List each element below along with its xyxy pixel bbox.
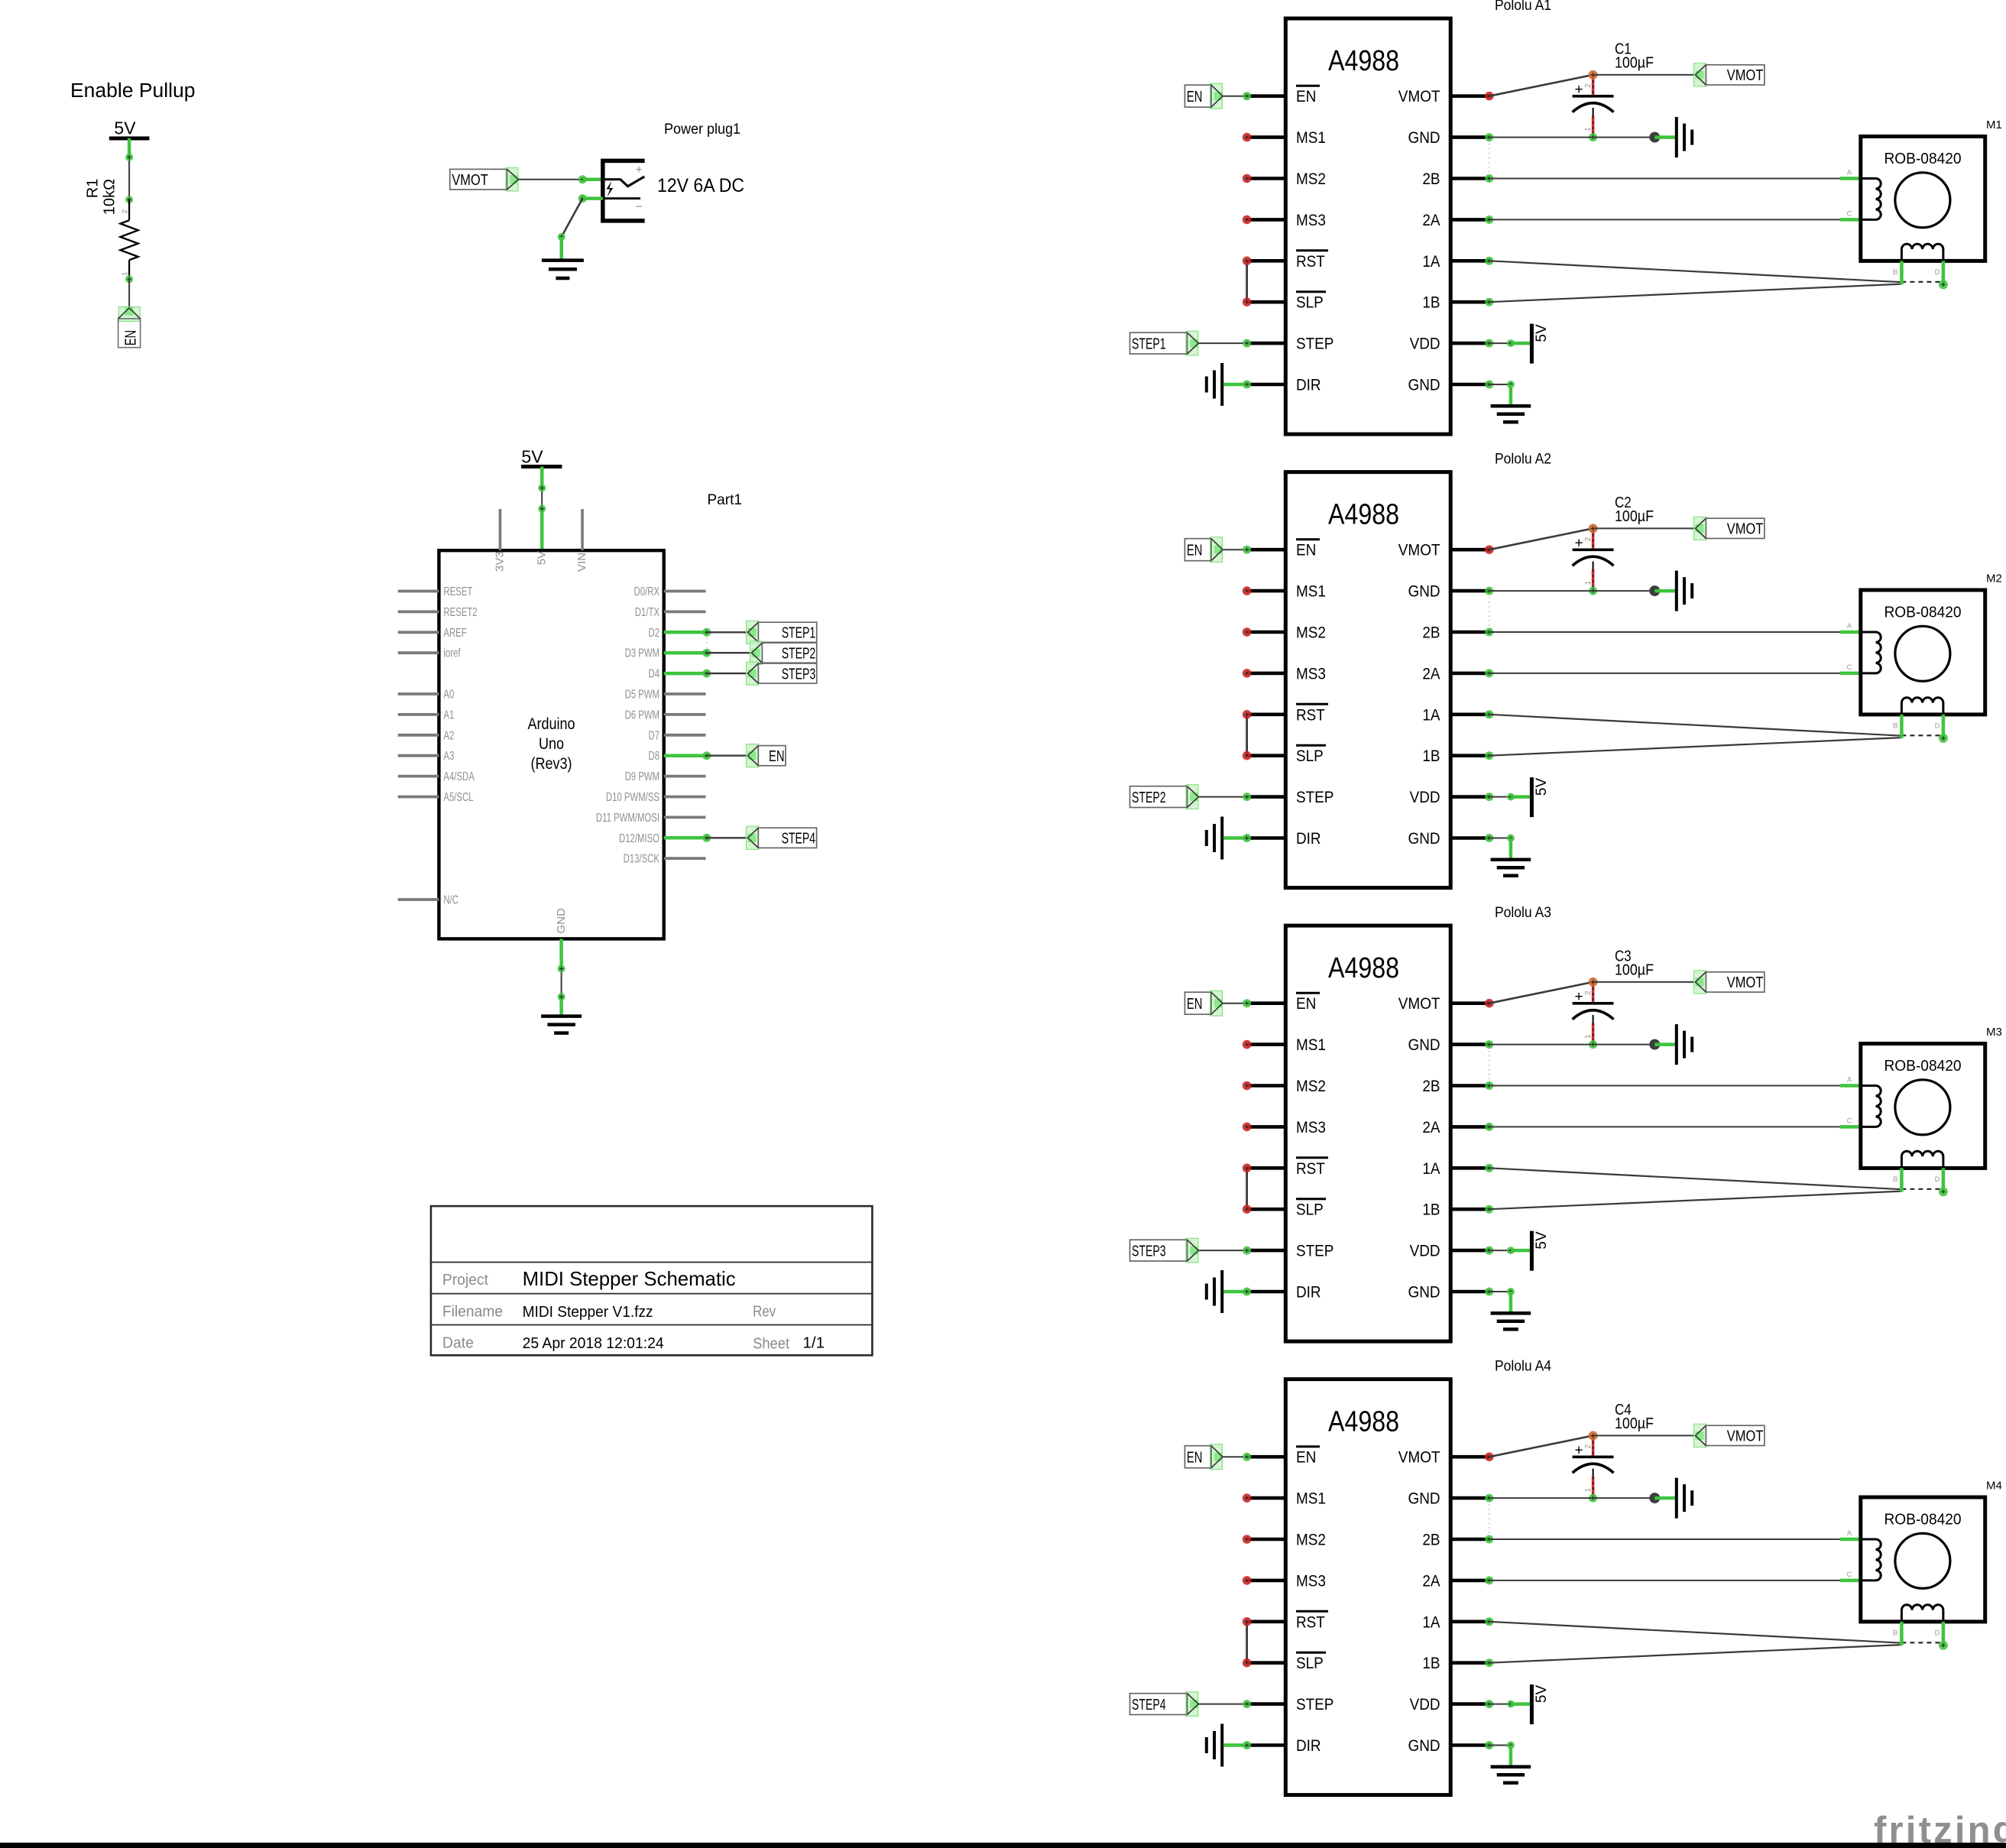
svg-text:VMOT: VMOT xyxy=(1727,521,1764,538)
svg-text:2: 2 xyxy=(1584,1444,1593,1449)
svg-text:B: B xyxy=(1893,1629,1897,1638)
svg-text:1/1: 1/1 xyxy=(803,1334,825,1352)
svg-text:D11 PWM/MOSI: D11 PWM/MOSI xyxy=(596,812,659,825)
svg-text:C: C xyxy=(1847,1571,1852,1579)
svg-text:SLP: SLP xyxy=(1296,293,1324,312)
motor M4 pin D stub xyxy=(1942,1622,1946,1645)
svg-text:Pololu A3: Pololu A3 xyxy=(1495,905,1551,921)
wire U3 1B to motor M3 pin B xyxy=(1485,1205,1493,1214)
net label STEP3 (arduino) xyxy=(747,662,759,685)
svg-text:2B: 2B xyxy=(1422,170,1440,188)
ratsnest U2 GND-2B (faint) xyxy=(1489,597,1490,626)
svg-text:RESET2: RESET2 xyxy=(443,606,477,619)
svg-text:EN: EN xyxy=(1296,541,1316,559)
svg-text:M1: M1 xyxy=(1986,118,2002,131)
svg-text:GND: GND xyxy=(1408,1490,1440,1508)
svg-text:Part1: Part1 xyxy=(708,492,742,508)
U1 left pin stubs xyxy=(1249,96,1285,384)
motor M1 pin D stub xyxy=(1942,261,1946,284)
ground symbol at U2 DIR xyxy=(1207,817,1222,860)
svg-text:VIN: VIN xyxy=(575,553,588,572)
svg-text:Date: Date xyxy=(442,1335,474,1352)
wire U2 2B to motor M2 pin A xyxy=(1485,628,1493,637)
svg-text:5V: 5V xyxy=(521,447,543,467)
svg-text:D: D xyxy=(1935,1629,1940,1638)
svg-text:+: + xyxy=(1574,82,1583,98)
net label STEP1 (U1) xyxy=(1186,331,1198,355)
ground symbol at U3 GND (bottom) xyxy=(1491,1313,1531,1329)
ground symbol at U2 GND (bottom) xyxy=(1491,860,1531,876)
svg-text:−: − xyxy=(635,201,642,214)
arduino left pin names xyxy=(443,585,477,907)
svg-text:100µF: 100µF xyxy=(1615,55,1654,72)
svg-text:2B: 2B xyxy=(1422,1077,1440,1095)
wire C4 to VMOT label xyxy=(1593,1435,1696,1436)
svg-text:GND: GND xyxy=(1408,1736,1440,1755)
wire U1 2B to motor M1 pin A xyxy=(1485,174,1493,183)
ground symbol at U1 DIR xyxy=(1207,363,1222,406)
svg-text:Arduino: Arduino xyxy=(528,715,575,733)
svg-text:VMOT: VMOT xyxy=(1727,67,1764,84)
svg-text:D: D xyxy=(1935,268,1940,277)
svg-text:A0: A0 xyxy=(443,689,454,702)
wire arduino D4 to STEP3 xyxy=(664,672,707,676)
motor M1 pin B stub xyxy=(1900,261,1904,284)
svg-text:GND: GND xyxy=(1408,1036,1440,1054)
svg-text:100µF: 100µF xyxy=(1615,508,1654,525)
svg-text:STEP: STEP xyxy=(1296,1695,1334,1713)
motor M2 pin B stub xyxy=(1900,715,1904,738)
net label EN (U3) xyxy=(1210,990,1223,1016)
wire U4 1B to motor M4 pin B xyxy=(1485,1658,1493,1667)
wire junction to ground (U2) xyxy=(1654,589,1675,593)
wire EN label to U3 EN pin xyxy=(1223,1003,1247,1004)
U3 left pin names xyxy=(1296,993,1334,1301)
wire C1 to VMOT label xyxy=(1593,74,1696,76)
svg-text:2: 2 xyxy=(1584,537,1593,542)
svg-text:MS1: MS1 xyxy=(1296,1036,1326,1054)
svg-text:STEP2: STEP2 xyxy=(782,645,816,662)
net label VMOT (U1, arrow left) xyxy=(1694,63,1706,86)
svg-text:VMOT: VMOT xyxy=(1398,994,1440,1013)
net label VMOT (U4, arrow left) xyxy=(1694,1424,1706,1447)
svg-text:+: + xyxy=(1574,536,1583,552)
svg-text:D5 PWM: D5 PWM xyxy=(625,689,659,702)
svg-text:A4/SDA: A4/SDA xyxy=(443,770,475,783)
wire U4 1A to motor M4 pin B xyxy=(1485,1617,1493,1626)
wire U1 VDD to 5V xyxy=(1485,339,1493,348)
svg-text:RST: RST xyxy=(1296,705,1325,724)
wire junction to ground (U3) xyxy=(1654,1042,1675,1046)
svg-text:ROB-08420: ROB-08420 xyxy=(1884,1511,1962,1529)
svg-text:RESET: RESET xyxy=(443,585,472,598)
svg-text:EN: EN xyxy=(1187,996,1203,1013)
svg-text:GND: GND xyxy=(1408,582,1440,601)
U3 right pin names xyxy=(1398,994,1440,1301)
wire 5V to R1 pin2 xyxy=(128,138,131,157)
wire U3 VDD to 5V xyxy=(1485,1247,1493,1255)
ground symbol at U1 GND (bottom) xyxy=(1491,406,1531,422)
svg-text:1A: 1A xyxy=(1422,705,1440,724)
svg-text:DIR: DIR xyxy=(1296,1283,1321,1302)
motor M1 rotor circle xyxy=(1895,173,1950,228)
junction node (U1 GND / C1) xyxy=(1649,132,1660,143)
svg-text:Pololu A2: Pololu A2 xyxy=(1495,452,1551,468)
svg-text:C: C xyxy=(1847,1117,1852,1125)
wire U3 RST-SLP tie xyxy=(1246,1168,1248,1209)
wire U1 1B to motor M1 pin B xyxy=(1485,298,1493,306)
svg-text:MIDI Stepper Schematic: MIDI Stepper Schematic xyxy=(523,1267,736,1290)
wire STEP2 label to U2 STEP pin xyxy=(1198,796,1246,798)
ratsnest motor M4 B to D xyxy=(1901,1642,1943,1643)
svg-text:1B: 1B xyxy=(1422,1654,1440,1672)
ratsnest motor M3 B to D xyxy=(1901,1188,1943,1190)
svg-text:DIR: DIR xyxy=(1296,829,1321,848)
svg-text:1A: 1A xyxy=(1422,1159,1440,1178)
svg-text:5V: 5V xyxy=(1534,778,1550,796)
capacitor C2 100uF xyxy=(1592,528,1595,550)
svg-text:MS3: MS3 xyxy=(1296,211,1326,229)
capacitor C3 100uF xyxy=(1592,982,1595,1003)
svg-text:Uno: Uno xyxy=(539,735,564,753)
wire U4 GND pin to ground (bottom) xyxy=(1485,1741,1493,1749)
svg-text:MIDI Stepper V1.fzz: MIDI Stepper V1.fzz xyxy=(523,1303,653,1321)
motor M2 pin D stub xyxy=(1942,715,1946,738)
wire U4 VDD to 5V xyxy=(1485,1700,1493,1708)
capacitor C4 100uF xyxy=(1592,1435,1595,1457)
svg-text:1B: 1B xyxy=(1422,747,1440,765)
wire U2 1B to motor M2 pin B xyxy=(1485,751,1493,760)
title block frame xyxy=(431,1206,873,1355)
svg-text:B: B xyxy=(1893,1175,1897,1184)
svg-text:2B: 2B xyxy=(1422,1531,1440,1549)
svg-text:1: 1 xyxy=(1584,1034,1593,1039)
svg-text:GND: GND xyxy=(1408,128,1440,147)
svg-text:2A: 2A xyxy=(1422,664,1440,682)
svg-text:1: 1 xyxy=(1584,581,1593,585)
ratsnest U1 GND-2B (faint) xyxy=(1489,144,1490,173)
svg-text:Enable Pullup: Enable Pullup xyxy=(70,80,196,102)
motor M3 pin B stub xyxy=(1900,1168,1904,1191)
svg-text:1B: 1B xyxy=(1422,293,1440,312)
svg-text:D9 PWM: D9 PWM xyxy=(625,770,659,783)
junction node (U2 GND / C2) xyxy=(1649,585,1660,596)
wire EN label to U2 EN pin xyxy=(1223,549,1247,550)
svg-text:D6 PWM: D6 PWM xyxy=(625,708,659,721)
ratsnest U4 GND-2B (faint) xyxy=(1489,1504,1490,1533)
svg-text:A3: A3 xyxy=(443,750,454,763)
motor M4 body ROB-08420 xyxy=(1861,1497,1985,1622)
svg-text:RST: RST xyxy=(1296,1613,1325,1631)
wire arduino D8 to EN xyxy=(664,754,707,757)
wire U2 VDD to 5V xyxy=(1485,793,1493,801)
wire U1 2A to motor M1 pin C xyxy=(1485,216,1493,224)
svg-text:C: C xyxy=(1847,663,1852,672)
wire EN label to U1 EN pin xyxy=(1223,96,1247,97)
U3 unconnected pin dots MS1 MS2 MS3 xyxy=(1243,1040,1252,1131)
wire arduino D2 to STEP1 xyxy=(664,631,707,634)
ground symbol (power plug) xyxy=(542,261,584,278)
net label STEP1 (arduino) xyxy=(747,621,759,644)
svg-text:Pololu A1: Pololu A1 xyxy=(1495,0,1551,14)
ratsnest arduino D2-D3 (faint) xyxy=(706,637,708,647)
svg-text:1: 1 xyxy=(1584,127,1593,131)
wire U4 GND to junction xyxy=(1485,1494,1493,1503)
svg-text:B: B xyxy=(1893,268,1897,277)
net label STEP3 (U3) xyxy=(1186,1238,1198,1263)
svg-text:D12/MISO: D12/MISO xyxy=(619,832,659,845)
svg-text:100µF: 100µF xyxy=(1615,1415,1654,1432)
wire U3 2B to motor M3 pin A xyxy=(1485,1081,1493,1090)
wire U3 VMOT to C3 xyxy=(1485,999,1494,1008)
motor M2 rotor circle xyxy=(1895,626,1950,681)
net label EN (U4) xyxy=(1210,1444,1223,1470)
wire U2 VMOT to C2 xyxy=(1485,545,1494,554)
bottom window edge xyxy=(0,1843,2006,1848)
svg-text:Filename: Filename xyxy=(442,1304,503,1321)
svg-text:D13/SCK: D13/SCK xyxy=(624,853,660,866)
wire STEP4 label to U4 STEP pin xyxy=(1198,1704,1246,1705)
wire U2 1A to motor M2 pin B xyxy=(1485,710,1493,718)
svg-text:VMOT: VMOT xyxy=(1727,974,1764,991)
svg-text:DIR: DIR xyxy=(1296,1736,1321,1755)
svg-text:M2: M2 xyxy=(1986,572,2002,585)
A4988 U2 body xyxy=(1285,472,1450,888)
svg-text:EN: EN xyxy=(769,748,785,765)
svg-text:MS3: MS3 xyxy=(1296,1118,1326,1136)
power symbol 5V (U2 VDD) xyxy=(1530,777,1534,817)
svg-text:STEP3: STEP3 xyxy=(782,666,816,682)
capacitor C1 100uF xyxy=(1592,75,1595,96)
svg-text:1: 1 xyxy=(1584,1488,1593,1493)
svg-text:5V: 5V xyxy=(1534,324,1550,342)
svg-text:A1: A1 xyxy=(443,708,454,721)
svg-text:1: 1 xyxy=(122,271,130,276)
resistor R1 10k xyxy=(128,199,130,220)
svg-text:VMOT: VMOT xyxy=(1398,1448,1440,1467)
svg-text:EN: EN xyxy=(1187,89,1203,105)
svg-text:fritzing: fritzing xyxy=(1874,1810,2006,1848)
svg-text:D1/TX: D1/TX xyxy=(635,606,659,619)
svg-text:B: B xyxy=(1893,722,1897,731)
svg-text:ROB-08420: ROB-08420 xyxy=(1884,150,1962,167)
junction node (U4 GND / C4) xyxy=(1649,1493,1660,1503)
motor M4 left winding xyxy=(1861,1539,1881,1581)
svg-text:GND: GND xyxy=(1408,376,1440,394)
motor M4 pin B stub xyxy=(1900,1622,1904,1645)
wire U3 1A to motor M3 pin B xyxy=(1485,1164,1493,1172)
svg-text:EN: EN xyxy=(1296,87,1316,105)
svg-text:STEP: STEP xyxy=(1296,335,1334,353)
svg-text:5V: 5V xyxy=(1534,1231,1550,1250)
svg-text:RST: RST xyxy=(1296,252,1325,271)
U1 unconnected pin dots MS1 MS2 MS3 xyxy=(1243,133,1252,224)
svg-text:A5/SCL: A5/SCL xyxy=(443,791,473,804)
svg-text:D0/RX: D0/RX xyxy=(634,585,660,598)
svg-text:A4988: A4988 xyxy=(1328,45,1399,77)
wire plug minus to ground xyxy=(578,194,587,203)
ratsnest U3 GND-2B (faint) xyxy=(1489,1051,1490,1080)
ratsnest motor M1 B to D xyxy=(1901,281,1943,283)
svg-text:12V 6A DC: 12V 6A DC xyxy=(657,175,744,196)
U2 right pin stubs xyxy=(1450,550,1489,838)
svg-text:SLP: SLP xyxy=(1296,747,1324,765)
svg-text:2B: 2B xyxy=(1422,624,1440,642)
wire ground to U1 DIR pin xyxy=(1223,383,1247,387)
svg-text:25 Apr 2018 12:01:24: 25 Apr 2018 12:01:24 xyxy=(523,1334,664,1352)
motor M1 body ROB-08420 xyxy=(1861,137,1985,261)
wire VMOT label to plug + xyxy=(518,179,582,180)
svg-text:A4988: A4988 xyxy=(1328,1406,1399,1438)
power symbol 5V (U3 VDD) xyxy=(1530,1231,1534,1271)
motor M2 left winding xyxy=(1861,632,1881,673)
svg-text:1A: 1A xyxy=(1422,252,1440,271)
wire U1 GND to junction xyxy=(1485,133,1493,141)
wire U1 VMOT to C1 xyxy=(1485,92,1494,101)
svg-text:D8: D8 xyxy=(649,750,660,763)
wire arduino D3 PWM to STEP2 xyxy=(664,651,707,655)
svg-text:MS2: MS2 xyxy=(1296,1077,1326,1095)
svg-text:2: 2 xyxy=(1584,83,1593,88)
motor M2 body ROB-08420 xyxy=(1861,590,1985,715)
svg-text:A: A xyxy=(1847,1076,1852,1084)
wire U4 VMOT to C4 xyxy=(1485,1452,1494,1461)
svg-text:Project: Project xyxy=(442,1272,488,1289)
wire U3 GND to junction xyxy=(1485,1040,1493,1049)
motor M3 pin D stub xyxy=(1942,1168,1946,1191)
power symbol 5V (U4 VDD) xyxy=(1530,1684,1534,1724)
svg-text:2A: 2A xyxy=(1422,1118,1440,1136)
svg-text:VDD: VDD xyxy=(1410,335,1440,353)
wire junction to ground (U4) xyxy=(1654,1496,1675,1500)
motor M4 rotor circle xyxy=(1895,1533,1950,1588)
U4 left pin stubs xyxy=(1249,1457,1285,1745)
wire ground to U4 DIR pin xyxy=(1223,1743,1247,1747)
U2 unconnected pin dots MS1 MS2 MS3 xyxy=(1243,586,1252,677)
svg-text:M4: M4 xyxy=(1986,1480,2002,1493)
svg-text:GND: GND xyxy=(1408,829,1440,848)
svg-text:STEP1: STEP1 xyxy=(782,625,816,642)
net label STEP2 (U2) xyxy=(1186,785,1198,809)
svg-text:STEP: STEP xyxy=(1296,1242,1334,1260)
svg-text:A4988: A4988 xyxy=(1328,952,1399,984)
arduino right pin stubs xyxy=(664,592,706,859)
motor M3 rotor circle xyxy=(1895,1080,1950,1135)
plug lightning mark xyxy=(607,181,614,197)
svg-text:MS2: MS2 xyxy=(1296,1531,1326,1549)
wire STEP1 label to U1 STEP pin xyxy=(1198,342,1246,344)
svg-text:100µF: 100µF xyxy=(1615,962,1654,979)
svg-text:ioref: ioref xyxy=(443,647,460,660)
svg-text:D4: D4 xyxy=(649,668,660,681)
svg-text:Sheet: Sheet xyxy=(753,1336,789,1353)
svg-text:N/C: N/C xyxy=(443,894,459,907)
motor M2 bottom winding xyxy=(1901,698,1943,715)
U4 right pin names xyxy=(1398,1448,1440,1755)
A4988 U3 body xyxy=(1285,926,1450,1341)
wire STEP3 label to U3 STEP pin xyxy=(1198,1250,1246,1251)
arduino right pin names xyxy=(596,585,659,866)
svg-text:1B: 1B xyxy=(1422,1201,1440,1219)
svg-text:VDD: VDD xyxy=(1410,788,1440,806)
wire C2 to VMOT label xyxy=(1593,527,1696,529)
svg-text:SLP: SLP xyxy=(1296,1654,1324,1672)
svg-text:MS2: MS2 xyxy=(1296,170,1326,188)
svg-text:Power plug1: Power plug1 xyxy=(664,122,741,138)
svg-text:EN: EN xyxy=(123,330,140,346)
U3 right pin stubs xyxy=(1450,1003,1489,1292)
svg-text:EN: EN xyxy=(1187,542,1203,559)
net label EN (arduino) xyxy=(746,744,758,767)
svg-text:VMOT: VMOT xyxy=(1398,87,1440,105)
svg-text:STEP: STEP xyxy=(1296,788,1334,806)
svg-text:ROB-08420: ROB-08420 xyxy=(1884,604,1962,621)
wire arduino D12/MISO to STEP4 xyxy=(664,836,707,840)
svg-text:D7: D7 xyxy=(649,729,660,742)
svg-text:VMOT: VMOT xyxy=(1727,1428,1764,1445)
svg-text:C: C xyxy=(1847,209,1852,218)
svg-text:Rev: Rev xyxy=(753,1304,776,1321)
A4988 U1 body xyxy=(1285,18,1450,434)
svg-text:+: + xyxy=(635,164,642,177)
svg-text:STEP4: STEP4 xyxy=(782,831,816,848)
svg-text:MS1: MS1 xyxy=(1296,582,1326,601)
net label STEP2 (arduino) xyxy=(750,641,763,664)
wire 5V to arduino 5V pin xyxy=(540,467,544,488)
ground symbol at U3 DIR xyxy=(1207,1270,1222,1313)
wire U1 RST-SLP tie xyxy=(1246,261,1248,302)
svg-text:5V: 5V xyxy=(114,118,136,138)
svg-text:VDD: VDD xyxy=(1410,1695,1440,1713)
net label EN (U2) xyxy=(1210,537,1223,563)
arduino left pin stubs xyxy=(398,592,439,900)
junction node (U3 GND / C3) xyxy=(1649,1039,1660,1050)
U2 left pin stubs xyxy=(1249,550,1285,838)
svg-text:A4988: A4988 xyxy=(1328,499,1399,531)
ground symbol at C2 xyxy=(1677,571,1692,611)
wire U1 GND pin to ground (bottom) xyxy=(1485,381,1493,389)
ground symbol at U4 GND (bottom) xyxy=(1491,1767,1531,1783)
svg-text:3V3: 3V3 xyxy=(494,551,507,572)
U1 right pin stubs xyxy=(1450,96,1489,384)
svg-text:2A: 2A xyxy=(1422,1571,1440,1590)
net label VMOT (U2, arrow left) xyxy=(1694,517,1706,540)
svg-text:D: D xyxy=(1935,722,1940,731)
svg-text:A2: A2 xyxy=(443,729,454,742)
wire U2 GND pin to ground (bottom) xyxy=(1485,834,1493,842)
wire U2 GND to junction xyxy=(1485,587,1493,595)
svg-text:5V: 5V xyxy=(1534,1685,1550,1704)
svg-text:EN: EN xyxy=(1296,1448,1316,1467)
svg-text:D2: D2 xyxy=(649,627,660,640)
svg-text:VDD: VDD xyxy=(1410,1242,1440,1260)
wire U2 2A to motor M2 pin C xyxy=(1485,669,1493,677)
U2 left pin names xyxy=(1296,540,1334,848)
svg-text:EN: EN xyxy=(1296,994,1316,1013)
svg-text:+: + xyxy=(1574,989,1583,1005)
motor M4 bottom winding xyxy=(1901,1605,1943,1622)
wire arduino GND to ground xyxy=(559,939,563,968)
net label VMOT (U3, arrow left) xyxy=(1694,971,1706,994)
ground symbol (arduino) xyxy=(541,1016,582,1033)
svg-text:MS1: MS1 xyxy=(1296,1490,1326,1508)
svg-text:GND: GND xyxy=(1408,1283,1440,1302)
svg-text:M3: M3 xyxy=(1986,1026,2002,1039)
wire U1 1A to motor M1 pin B xyxy=(1485,257,1493,265)
wire U3 GND pin to ground (bottom) xyxy=(1485,1288,1493,1296)
arduino U1 body xyxy=(439,550,663,939)
wire U4 RST-SLP tie xyxy=(1246,1622,1248,1663)
